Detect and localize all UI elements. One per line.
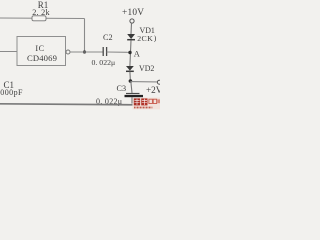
terminal +2V	[157, 80, 161, 84]
svg-text:+10V: +10V	[122, 8, 144, 18]
svg-text:A: A	[134, 50, 140, 59]
svg-text:2. 2k: 2. 2k	[32, 8, 50, 17]
capacitor C3	[126, 93, 140, 95]
diode VD2	[126, 66, 134, 71]
watermark	[133, 98, 161, 110]
wire C3 to ground rail	[131, 97, 133, 103]
wire feedback vertical	[84, 19, 86, 53]
svg-text:): )	[154, 34, 157, 43]
capacitor C2	[103, 47, 106, 56]
wire output to C2	[70, 51, 103, 53]
wire junction to C3	[131, 81, 132, 93]
wire rail terminal to VD1	[130, 23, 133, 34]
resistor R1	[32, 16, 46, 21]
svg-text:VD2: VD2	[139, 64, 154, 73]
wire VD1 to VD2	[130, 40, 131, 66]
svg-text:1000pF: 1000pF	[0, 88, 23, 97]
ground rail bottom wire	[0, 104, 134, 105]
junction output node	[83, 50, 86, 53]
wire top feedback	[0, 17, 85, 20]
wire C2 to node A	[107, 51, 131, 53]
inverter output bubble	[66, 50, 70, 54]
svg-text:0. 022μ: 0. 022μ	[92, 58, 116, 67]
node A junction	[128, 51, 131, 54]
svg-text:IC: IC	[35, 44, 44, 53]
terminal +10V	[130, 19, 134, 23]
IC U1 CD4069 box	[17, 37, 66, 66]
svg-text:C2: C2	[103, 33, 113, 42]
wire VD2 to junction	[129, 72, 132, 81]
junction node B	[129, 79, 133, 83]
wire to +2V terminal	[130, 81, 157, 83]
svg-text:CD4069: CD4069	[27, 53, 57, 63]
svg-text:2CK: 2CK	[137, 34, 153, 43]
svg-text:C3: C3	[117, 84, 127, 93]
svg-text:+2V: +2V	[146, 85, 160, 95]
diode VD1	[127, 34, 135, 39]
wire input	[0, 51, 17, 53]
